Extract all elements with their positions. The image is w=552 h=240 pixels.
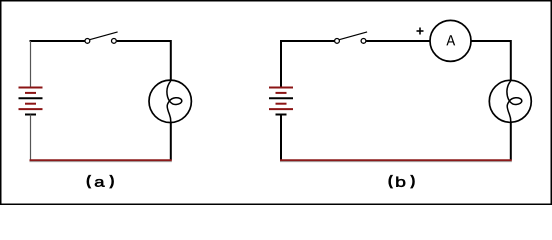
ammeter A1: [430, 20, 471, 61]
label (a): [87, 175, 114, 188]
label (b): [389, 175, 415, 188]
lamp L1: [149, 80, 191, 122]
wire battery top (a): [30, 41, 32, 87]
wire top left (a): [31, 41, 86, 42]
wire bottom (a): [30, 160, 172, 162]
switch S1: [85, 32, 118, 43]
wire ammeter to lamp (b): [471, 41, 511, 81]
wire battery top (b): [280, 41, 282, 87]
lamp L2: [489, 80, 531, 122]
wire battery bottom (b): [280, 115, 282, 161]
wire lamp bottom (a): [170, 122, 172, 160]
battery B2: [269, 88, 293, 115]
wire switch to ammeter (b): [366, 40, 429, 42]
wire top right (a): [117, 41, 171, 81]
wire top left (b): [281, 41, 335, 42]
battery B1: [19, 88, 43, 115]
wire lamp bottom (b): [510, 122, 512, 160]
wire battery bottom (a): [30, 115, 32, 160]
switch S2: [335, 32, 368, 43]
plus polarity mark: [417, 28, 424, 35]
wire bottom (b): [280, 160, 512, 162]
